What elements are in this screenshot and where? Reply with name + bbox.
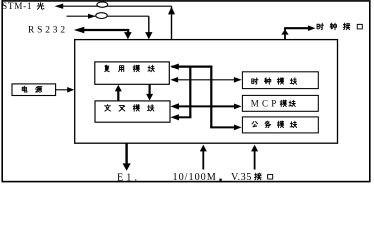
label 复用模块 — [105, 65, 155, 72]
wire STM-1 transmit (into optical connector 2) — [67, 14, 149, 19]
wire bus into 复用模块 (thick, from vertical bus) — [170, 64, 212, 70]
label 交叉模块 — [105, 105, 154, 112]
wire 交叉模块 to MCP模块 (double arrow, thick) — [170, 103, 241, 109]
wire bus vertical 1 elbow into 交叉模块 — [170, 114, 191, 120]
svg-text:V.35: V.35 — [231, 172, 251, 183]
wire bus vertical 1 — [189, 66, 191, 118]
wire clock interface (up from chassis, elbow right) — [281, 25, 315, 39]
block 公务模块 (orderwire module) — [242, 117, 318, 133]
label RS232 — [28, 26, 65, 36]
label 10/100M． V.35 接口 — [173, 172, 273, 183]
svg-text:E1.: E1. — [117, 172, 137, 183]
label STM-1 光 — [2, 1, 44, 11]
block 交叉模块 (cross-connect module) — [95, 101, 170, 122]
wire 10/100M input (up arrow 1) — [200, 145, 207, 170]
wire STM-1 receive (to optical connector 1) — [55, 4, 172, 9]
optical connector 1 — [97, 2, 108, 7]
label E1. — [117, 172, 137, 183]
optical connector 2 — [96, 13, 107, 19]
wire STM-1 output (up arrow at x=171.5) — [168, 6, 175, 39]
label 电源 — [22, 86, 42, 92]
svg-text:MCP: MCP — [251, 99, 276, 109]
wire 复用模块 to 交叉模块 (down arrow) — [146, 84, 153, 100]
label 公务模块 — [252, 121, 297, 128]
wire 复用模块 to 时钟模块 (double arrow) — [170, 77, 241, 83]
block 时钟模块 (clock module) — [242, 72, 318, 89]
wire STM-1 transmit down into chassis — [145, 16, 152, 39]
block 复用模块 (multiplex module) — [95, 62, 170, 84]
wire bus vertical 2 — [210, 66, 212, 128]
wire power into chassis — [56, 87, 75, 93]
label MCP模块 — [251, 99, 296, 109]
svg-text:10/100M: 10/100M — [173, 172, 216, 183]
label 时钟接口 — [317, 23, 362, 30]
wire RS232 (elbow into chassis top) — [74, 27, 132, 40]
wire bus vertical 2 elbow into 公务模块 — [210, 125, 241, 131]
wire E1 output (down arrow) — [123, 143, 131, 170]
power box 电源 — [12, 84, 56, 96]
wire 交叉模块 to 复用模块 (up arrow) — [115, 85, 122, 101]
svg-text:STM-1: STM-1 — [2, 1, 32, 11]
block MCP模块 (MCP module) — [242, 95, 318, 111]
svg-text:RS232: RS232 — [28, 26, 65, 36]
chassis box (equipment enclosure) — [75, 40, 338, 144]
outer border frame — [2, 1, 370, 182]
wire V.35 input (up arrow 2) — [251, 145, 258, 170]
label 时钟模块 — [252, 78, 297, 85]
